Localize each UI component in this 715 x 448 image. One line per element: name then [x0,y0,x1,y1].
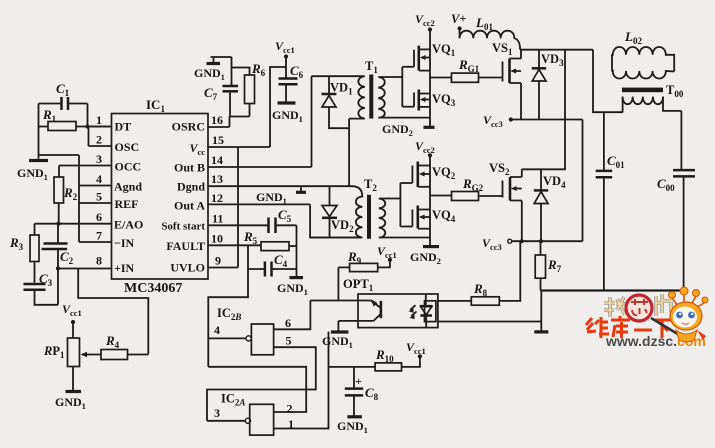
svg-text:Agnd: Agnd [114,180,142,194]
diode VD3 [532,50,564,120]
wire FAULT riser to IC2B input [208,245,248,366]
red text wei ku yi xia [586,316,671,338]
svg-text:12: 12 [211,191,223,205]
capacitor C1 [39,81,88,127]
pin 2 [89,145,112,147]
wire gate tie VQ2/VQ4 [399,183,401,227]
svg-text:GND1: GND1 [277,281,308,297]
ground GND1 (osc) [194,57,232,82]
pin 13 Dgnd wire [208,185,353,187]
svg-text:OSRC: OSRC [172,120,205,134]
ground GND1 (RP1) [55,367,86,412]
svg-text:11: 11 [212,212,223,226]
svg-text:10: 10 [211,232,223,246]
wire top line drop to output node [593,50,623,112]
resistor R2 [54,166,78,224]
svg-text:5: 5 [96,190,102,204]
transistor VQ2 [400,162,455,188]
svg-text:13: 13 [211,172,223,186]
svg-text:1: 1 [288,417,294,431]
wire VQ1/VQ3 rail [429,30,431,127]
wire Vcc3 drop riser [582,120,584,242]
svg-text:3: 3 [214,406,220,420]
svg-text:Dgnd: Dgnd [177,180,205,194]
optocoupler OPT1 [310,277,541,328]
power Vcc3 (lower) [482,236,512,252]
svg-text:V+: V+ [451,12,466,26]
stamp ring with char xin [626,295,652,321]
svg-text:GND1: GND1 [55,395,86,411]
svg-text:GND2: GND2 [410,250,441,266]
svg-text:14: 14 [211,153,223,167]
ground GND1 (Dgnd stub) [256,186,306,206]
transistor VS1 [492,41,521,120]
wire C1/R1 left to GND junction [38,104,40,156]
pin 16 [208,126,230,128]
svg-text:+IN: +IN [114,261,135,275]
ground GND2 (T2) [410,247,441,266]
svg-text:OSC: OSC [115,140,140,154]
ground (output common) [534,330,548,333]
pin 15 [208,146,270,148]
wire Vcc3 lower line [512,240,583,242]
ground GND1 top-left [17,155,79,182]
svg-text:GND1: GND1 [194,66,225,82]
pin 8 wire +IN [57,268,112,270]
transistor VQ4 [400,206,455,229]
diode VD4 [534,169,566,241]
svg-text:3: 3 [96,152,102,166]
svg-text:GND1: GND1 [272,108,303,124]
svg-text:2: 2 [96,133,102,147]
resistor R7 [535,241,561,290]
pin 12 [208,203,310,205]
wire R9 drop to opto collector [337,267,339,300]
svg-text:GND1: GND1 [17,166,48,182]
pin 9 [208,267,238,269]
svg-text:2: 2 [287,402,293,416]
node +IN junction [56,266,60,270]
resistor R8 [471,241,520,305]
capacitor C6 [279,63,304,102]
wire C5/R5/C4 ground riser [296,225,298,276]
wire top line to VS2 drain [522,50,565,170]
svg-text:GND1: GND1 [337,419,368,435]
svg-text:6: 6 [285,316,291,330]
ground GND1 (C4/C5) [277,278,308,297]
resistor R4 [92,333,148,360]
transformer T2 [310,177,430,239]
outlined char zhao [604,297,627,317]
svg-text:E/AO: E/AO [114,218,143,232]
pin 6 wire E/AO [35,223,112,225]
resistor R9 [338,249,390,272]
svg-text:Out A: Out A [174,199,205,213]
watermark logo [586,287,708,349]
diode VD2 [322,186,354,237]
resistor R5 [243,229,297,251]
wire gate tie VQ1/VQ3 [401,67,403,107]
svg-text:4: 4 [214,323,220,337]
pin 3 [59,165,112,167]
diode VD1 [322,76,354,128]
svg-text:REF: REF [115,197,139,211]
power Vcc1 (RP1) [62,302,82,338]
pin 14 [208,166,312,168]
pin 11 [208,224,268,226]
power Vcc1 (R10) [406,340,426,359]
power V+ [451,12,466,38]
resistor RG1 [430,57,503,82]
gate IC2A [207,332,329,435]
svg-text:9: 9 [215,254,221,268]
svg-text:5: 5 [286,334,292,348]
wire Vcc3 net ground drop [540,291,542,331]
inductor L01 [460,15,520,50]
svg-text:15: 15 [212,133,224,147]
svg-text:16: 16 [211,113,223,127]
node VD4/R7 junction [539,239,543,243]
capacitor C4 [248,252,297,277]
svg-text:DT: DT [115,120,132,134]
transistor VQ3 [402,90,455,111]
inductor L02 [612,29,674,79]
resistor R1 [39,107,112,131]
capacitor C7 [204,57,238,117]
svg-text:1: 1 [96,113,102,127]
power Vcc3 (upper) [483,113,513,129]
capacitor C01 [596,112,625,290]
transistor VS2 [489,161,522,241]
gate IC2B [207,301,316,421]
resistor RG2 [430,176,503,201]
svg-text:Soft start: Soft start [161,221,205,233]
pin 7 [79,241,112,243]
wire pin15 Vcc riser [270,67,286,147]
svg-text:UVLO: UVLO [170,261,205,275]
capacitor C3 [24,271,59,305]
svg-text:Out B: Out B [174,161,205,175]
wire osc net to pin16 [230,117,250,128]
wire Vcc3 upper line [511,119,583,121]
svg-text:GND2: GND2 [382,122,413,138]
transformer T00 [622,83,684,112]
node VS2 source junction [520,239,524,243]
ground GND1 (C6) [272,103,303,124]
wire top rail [520,49,593,51]
resistor R6 [232,61,266,117]
mascot [651,287,708,342]
svg-text:−IN: −IN [114,236,135,250]
IC U1 MC34067 body [112,97,209,296]
svg-text:FAULT: FAULT [166,239,205,253]
transformer T1 [312,59,431,119]
pin 4 [79,185,112,187]
svg-text:7: 7 [96,229,102,243]
ground GND2 (T1) [382,122,435,138]
svg-text:6: 6 [96,210,102,224]
wire output bottom rail [541,289,684,291]
ground GND1 (OPT1) [322,321,353,350]
power Vcc1 (C6) [275,39,295,78]
wire Out B riser [311,76,313,167]
resistor R3 [9,224,39,283]
power Vcc1 (R9) [377,244,397,262]
wire VQ2/VQ4 rail [429,155,431,245]
wire pin4 riser [78,155,80,242]
capacitor C00 [657,111,695,291]
pin 10 [208,244,261,246]
pin 1 [88,126,112,128]
resistor R10 [329,347,420,371]
power Vcc2 (lower) [415,139,435,157]
svg-text:8: 8 [96,254,102,268]
svg-text:GND1: GND1 [322,334,353,350]
capacitor C5 [269,207,297,233]
svg-text:MC34067: MC34067 [124,281,182,296]
svg-text:GND1: GND1 [256,190,287,206]
wire pin2 riser to pin1 net [88,127,90,147]
svg-text:OCC: OCC [115,160,142,174]
node E/AO junction [56,222,60,226]
potentiometer RP1 [43,338,92,367]
wire UVLO-to-Vcc riser [237,147,239,268]
wire +IN to R4 net [78,269,148,355]
svg-text:4: 4 [96,172,102,186]
power Vcc2 (upper) [415,12,435,32]
pin 5 [79,202,112,204]
ground GND1 (C8) [337,417,368,435]
transistor VQ1 [402,42,455,71]
capacitor C2 [42,224,74,305]
svg-text:+: + [355,374,362,388]
outlined char pian [656,294,671,316]
capacitor C8 [345,367,379,416]
wire Out A riser [310,204,362,237]
wire T1 bottom to Dgnd [348,119,350,187]
node R1-C1-pin1 junction [85,124,89,128]
